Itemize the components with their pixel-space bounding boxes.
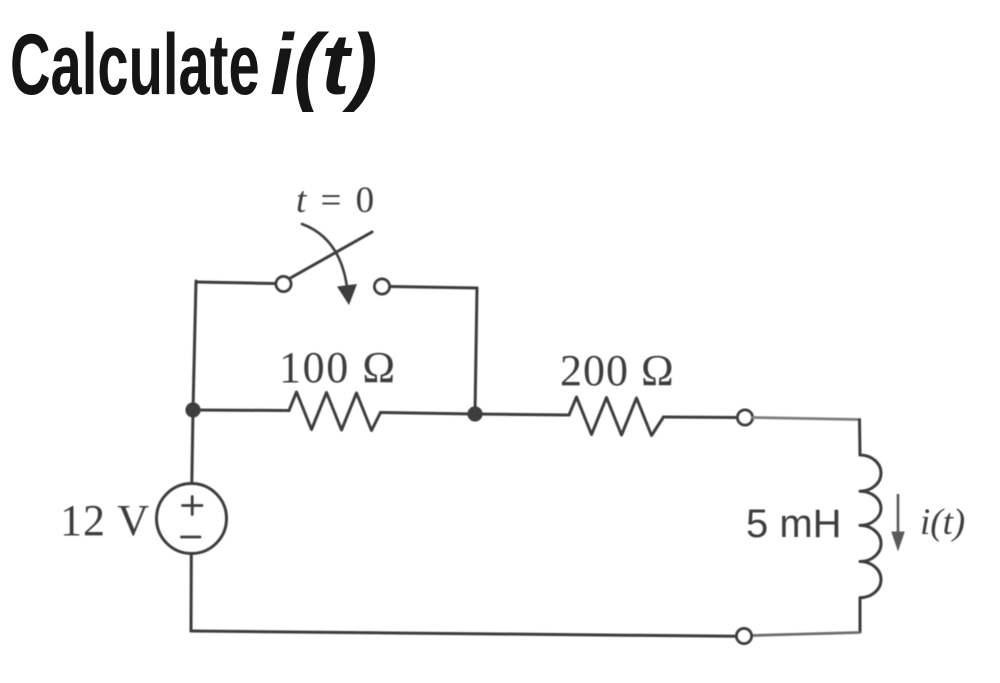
terminal T1 (open) bbox=[738, 410, 753, 425]
wire inductor bottom corner to terminal T2 bbox=[752, 633, 860, 636]
wire top-right horizontal bbox=[390, 287, 478, 289]
resistor R1 100 ohm bbox=[289, 392, 381, 431]
node B junction dot bbox=[467, 406, 482, 421]
voltage source V1 minus sign bbox=[182, 536, 201, 539]
switch SW1 right terminal bbox=[375, 279, 390, 294]
switch SW1 motion arc bbox=[302, 224, 347, 287]
voltage source V1 plus sign bbox=[183, 497, 203, 515]
resistor R2 200 ohm bbox=[569, 397, 664, 436]
current arrow i(t) head bbox=[891, 532, 905, 552]
current arrow i(t) bbox=[897, 494, 900, 533]
switch SW1 left terminal bbox=[276, 277, 291, 292]
wire left vertical upper bbox=[192, 281, 196, 484]
wire resistor R2 to terminal T1 bbox=[664, 416, 738, 420]
svg-text:12 V: 12 V bbox=[60, 496, 150, 545]
svg-text:5 mH: 5 mH bbox=[746, 502, 842, 546]
terminal T2 (open) bbox=[737, 629, 752, 644]
switch SW1 blade bbox=[290, 232, 373, 279]
title bbox=[10, 16, 260, 115]
wire right vertical to node B bbox=[475, 288, 477, 414]
wire terminal T1 to inductor top corner bbox=[753, 418, 858, 420]
switch SW1 arrowhead bbox=[337, 284, 357, 305]
wire left vertical lower bbox=[190, 554, 193, 631]
node A junction dot bbox=[185, 402, 200, 417]
wire top-left horizontal bbox=[196, 282, 275, 284]
svg-text:t = 0: t = 0 bbox=[296, 180, 377, 221]
wire bottom horizontal bbox=[191, 631, 737, 636]
svg-text:200 Ω: 200 Ω bbox=[560, 346, 675, 395]
wire node B to resistor R2 bbox=[475, 414, 569, 415]
wire inductor top vertical bbox=[858, 420, 862, 456]
svg-text:i(t): i(t) bbox=[920, 502, 965, 543]
inductor L1 coils bbox=[860, 455, 881, 598]
wire resistor R1 to node B bbox=[381, 413, 476, 415]
wire node A to resistor R1 bbox=[193, 409, 289, 413]
voltage source V1 bbox=[157, 484, 227, 554]
wire inductor bottom vertical bbox=[859, 598, 862, 632]
svg-text:100 Ω: 100 Ω bbox=[279, 343, 397, 392]
